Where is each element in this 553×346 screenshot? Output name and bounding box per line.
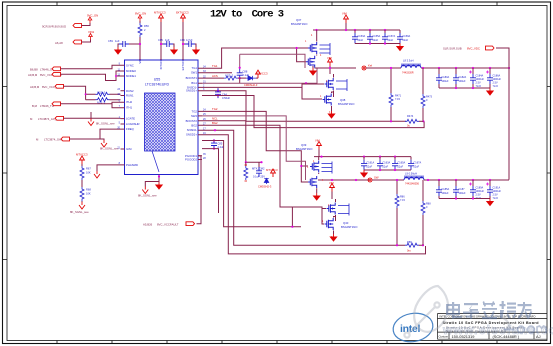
power VIN arrow stage1	[342, 12, 348, 31]
transistor Q39 fet2	[308, 176, 317, 193]
svg-text:BOOST1: BOOST1	[186, 76, 198, 80]
resistor R56	[138, 21, 149, 60]
IC pin stubs left	[121, 65, 125, 165]
svg-text:A6,A8: A6,A8	[55, 41, 63, 45]
svg-text:C88: C88	[243, 70, 248, 74]
flag 8VC_ON top	[135, 12, 146, 22]
svg-text:8VC_VCCFAULT: 8VC_VCCFAULT	[157, 223, 179, 227]
svg-text:8K_SGNL_see: 8K_SGNL_see	[138, 194, 157, 198]
wire aux row	[202, 149, 219, 213]
ground open below IC with label	[138, 182, 159, 198]
power VIM mid stage2	[329, 181, 334, 199]
svg-text:SYNC: SYNC	[126, 63, 134, 67]
svg-text:R474: R474	[407, 114, 414, 118]
IC thermal pad hatch	[145, 93, 176, 172]
svg-text:22uF: 22uF	[358, 39, 364, 42]
wire output rail stage2	[424, 179, 509, 181]
pin number digits left of IC	[117, 63, 120, 166]
svg-text:C163A: C163A	[383, 162, 391, 165]
ground rail output stage1	[439, 87, 493, 95]
svg-text:7443330R: 7443330R	[402, 72, 414, 75]
svg-text:PHASMD: PHASMD	[126, 163, 138, 167]
wire SW1 long	[202, 68, 317, 84]
svg-text:BSG09T1NO: BSG09T1NO	[341, 225, 358, 229]
svg-text:BSG09T1NO: BSG09T1NO	[296, 147, 313, 151]
power MTVCC3 top b	[176, 11, 189, 61]
svg-text:C161A: C161A	[367, 162, 375, 165]
capacitor bank input stage1	[352, 30, 365, 44]
ground stage1 a	[310, 66, 316, 75]
svg-text:LOADSHR: LOADSHR	[126, 122, 140, 126]
op-amp U55 LTC3874EUFD body	[125, 60, 199, 175]
resistor R89	[405, 240, 419, 253]
wire BG2	[202, 121, 324, 224]
svg-text:BOOST2: BOOST2	[186, 119, 198, 123]
power MTVCC3 top a	[154, 11, 166, 61]
svg-text:C85: C85	[218, 142, 223, 146]
inductor L9	[404, 172, 424, 186]
transistor Q40 fet1	[324, 199, 349, 221]
ground stage2 b	[330, 234, 336, 241]
wire VIN rail stage1	[313, 29, 400, 31]
svg-text:7.15: 7.15	[395, 98, 400, 101]
svg-text:C65: C65	[158, 38, 163, 42]
svg-text:NCL: NCL	[212, 117, 218, 121]
svg-text:C153A: C153A	[358, 35, 366, 38]
svg-text:SNSD2+: SNSD2+	[186, 133, 197, 137]
svg-text:C187: C187	[459, 188, 466, 191]
inductor L8	[401, 59, 421, 75]
svg-text:7443340056: 7443340056	[405, 183, 420, 186]
svg-text:BSG09T1NO: BSG09T1NO	[338, 102, 355, 106]
svg-text:C165A: C165A	[398, 162, 406, 165]
svg-text:EXTVCC: EXTVCC	[181, 59, 185, 70]
transistor Q39 fet1	[310, 157, 332, 174]
port 8VC_VCCFAULT	[143, 222, 195, 227]
capacitor C59	[108, 39, 141, 54]
svg-text:C155A: C155A	[373, 35, 381, 38]
svg-text:0.1uF 25V: 0.1uF 25V	[253, 175, 265, 179]
svg-text:L9 0.56uH: L9 0.56uH	[405, 172, 417, 176]
wire PHASMD	[94, 165, 121, 178]
svg-text:SLR,SUR,SUB: SLR,SUR,SUB	[443, 47, 462, 51]
transistor Q40 fet2	[323, 215, 358, 234]
watermark drop shape	[404, 286, 508, 338]
svg-text:22uF: 22uF	[414, 166, 420, 169]
svg-text:100uF: 100uF	[442, 80, 450, 83]
transistor Q37 fet2	[306, 56, 315, 68]
resistor R473	[421, 68, 433, 122]
IC right pin labels	[185, 66, 197, 161]
ground rail output stage2	[439, 197, 493, 205]
wire SNSD1-	[202, 90, 406, 122]
wire SNSD2+	[202, 135, 426, 254]
wire SW2 node	[318, 179, 369, 181]
IC bottom pin stub	[158, 175, 160, 179]
svg-text:R56: R56	[144, 24, 149, 28]
svg-text:10K: 10K	[86, 192, 91, 196]
transistor Q38 fet2	[306, 91, 355, 112]
svg-text:9CR,9VR,9U9,9UD: 9CR,9VR,9U9,9UD	[42, 25, 66, 29]
wire PGOOD to port	[197, 156, 202, 224]
ground rail input caps stage1	[355, 42, 403, 50]
svg-text:C167A: C167A	[414, 162, 422, 165]
svg-text:INTVCC: INTVCC	[159, 59, 163, 69]
wire SW to inductor stage1	[366, 67, 401, 69]
port 8VC_VCC_EN	[30, 84, 121, 104]
border zone ticks sides	[3, 87, 551, 260]
kelvin probe stage2	[368, 176, 379, 183]
svg-text:B6,B8: B6,B8	[30, 67, 38, 71]
output capacitor C180A	[436, 68, 449, 88]
svg-text:BG2: BG2	[191, 123, 197, 127]
kelvin probe stage1	[362, 64, 372, 71]
svg-text:A9,B,M: A9,B,M	[30, 85, 40, 89]
capacitor C85	[211, 139, 225, 149]
svg-text:Kel: Kel	[368, 64, 372, 68]
capacitor C159	[397, 30, 410, 44]
resistor R67	[80, 164, 91, 180]
svg-text:MTK_CM2: MTK_CM2	[252, 167, 265, 171]
svg-text:LTC3874EUFD: LTC3874EUFD	[145, 83, 170, 87]
svg-text:C180A: C180A	[442, 76, 450, 79]
output capacitor C185	[436, 180, 449, 199]
svg-text:LTC3874_GAIN: LTC3874_GAIN	[44, 138, 64, 142]
svg-text:LTM46_TH: LTM46_TH	[40, 104, 54, 108]
port LTM46_TH	[32, 102, 121, 108]
capacitor C84	[215, 88, 230, 100]
output capacitor C187	[453, 180, 466, 199]
capacitor C155	[367, 30, 380, 44]
svg-text:100uF: 100uF	[442, 192, 450, 195]
wire SW1 node	[315, 67, 356, 69]
ground solid below IC	[156, 175, 162, 189]
port 8VC_VDC	[443, 46, 509, 68]
svg-text:1uF: 1uF	[165, 38, 170, 42]
diode D37	[258, 168, 278, 189]
wire BG1	[202, 84, 306, 99]
resistor R85 boost	[244, 162, 248, 181]
svg-text:9VC_ON: 9VC_ON	[87, 14, 98, 18]
port LTC3874_AC_IN	[30, 112, 121, 126]
output capacitor C189	[470, 180, 484, 200]
svg-text:CMDSH2-3: CMDSH2-3	[258, 185, 272, 189]
output capacitor C186	[487, 68, 501, 88]
transistor Q37 label	[291, 18, 308, 26]
resistor R68	[80, 180, 91, 201]
svg-text:22uF: 22uF	[403, 39, 409, 42]
IC left pin labels	[126, 63, 140, 167]
svg-text:C157A: C157A	[388, 35, 396, 38]
svg-text:7mO: 7mO	[493, 85, 498, 88]
wire SW1 boot	[202, 54, 305, 72]
svg-text:8K_SGNL_see: 8K_SGNL_see	[70, 210, 89, 214]
svg-text:1uF: 1uF	[115, 39, 120, 43]
transistor Q37 fet1	[308, 30, 330, 56]
svg-text:0.56uF: 0.56uF	[222, 96, 230, 100]
wire output rail stage1	[421, 67, 510, 69]
fet pin digits stage1	[305, 35, 331, 114]
wire VDD vertical long	[508, 68, 510, 180]
svg-text:MODE1: MODE1	[126, 74, 136, 78]
svg-text:L8 3.3uH: L8 3.3uH	[403, 59, 414, 63]
wire SW2 boot	[202, 116, 306, 180]
IC pin stubs right	[198, 68, 202, 159]
svg-text:PGOOD2: PGOOD2	[185, 158, 197, 162]
svg-text:SNSD1+: SNSD1+	[186, 89, 197, 93]
capacitor C167	[408, 157, 421, 170]
resistor R474	[405, 114, 423, 128]
IC top pin labels	[138, 59, 185, 70]
svg-text:C59: C59	[108, 39, 113, 43]
port 8VC_VCORE000	[28, 71, 121, 81]
ground open left chain	[70, 201, 89, 214]
svg-text:0ru: 0ru	[407, 249, 411, 253]
port LTC3874_GAIN	[36, 129, 121, 150]
ground stage1 b	[328, 111, 334, 118]
svg-text:12V to Core 3: 12V to Core 3	[210, 9, 284, 21]
capacitor bank input stage2 C161	[361, 157, 374, 170]
svg-text:C66: C66	[180, 38, 185, 42]
svg-text:8K_SGNL_see: 8K_SGNL_see	[96, 122, 115, 126]
svg-text:SNSD2-: SNSD2-	[187, 128, 197, 132]
polarized cap plus marks	[469, 71, 489, 186]
svg-text:22uF: 22uF	[373, 39, 379, 42]
transistor Q39 label	[296, 143, 313, 151]
svg-text:22uF: 22uF	[367, 166, 373, 169]
wire BOOST1 with resistor and diode	[202, 74, 246, 81]
capacitor C66	[180, 38, 199, 54]
diode D36	[244, 70, 268, 87]
svg-text:SW1: SW1	[191, 71, 198, 75]
svg-text:100uF: 100uF	[459, 192, 467, 195]
wire SNSD2-	[202, 129, 424, 246]
resistor R471	[389, 67, 402, 123]
svg-text:BG2: BG2	[212, 121, 218, 125]
svg-text:8VC_VDC: 8VC_VDC	[467, 47, 480, 51]
svg-text:22uF: 22uF	[398, 166, 404, 169]
svg-text:C182A: C182A	[459, 76, 467, 79]
pin number digits right of IC	[203, 66, 206, 160]
svg-text:C159A: C159A	[403, 35, 411, 38]
svg-text:22uF: 22uF	[383, 166, 389, 169]
watermark chinese characters	[447, 301, 532, 319]
svg-text:ITH1: ITH1	[126, 106, 133, 110]
port LTM46_SYNC	[30, 65, 121, 71]
svg-text:22uF: 22uF	[388, 39, 394, 42]
svg-text:TG2: TG2	[192, 109, 198, 113]
svg-text:4.7uF: 4.7uF	[186, 38, 193, 42]
output capacitor C191	[487, 180, 501, 200]
svg-text:ITH2: ITH2	[126, 100, 133, 104]
IC top pin stubs	[140, 56, 183, 60]
logo intel	[391, 310, 435, 345]
output capacitor C182	[453, 68, 466, 88]
svg-text:A5,B26: A5,B26	[143, 223, 153, 227]
capacitor C65	[158, 38, 177, 54]
capacitor C89	[252, 162, 265, 178]
resistor R86	[395, 179, 405, 246]
power MTVCC3 left	[76, 153, 88, 165]
svg-text:MTVCC3: MTVCC3	[154, 11, 166, 15]
svg-text:TG1: TG1	[192, 66, 198, 70]
svg-text:RUN2: RUN2	[126, 89, 134, 93]
ground stage2 a	[314, 193, 320, 200]
fet pin digits stage2	[307, 161, 333, 239]
capacitor C163	[377, 157, 390, 170]
svg-text:ILIM: ILIM	[126, 147, 132, 151]
svg-text:RUN1: RUN1	[126, 94, 134, 98]
border zone ticks bottom	[57, 341, 497, 344]
svg-text:B,M: B,M	[32, 104, 38, 108]
svg-text:SW: SW	[374, 176, 379, 180]
svg-text:VIN1: VIN1	[88, 30, 95, 34]
svg-text:8K_SGNL_see: 8K_SGNL_see	[100, 147, 119, 151]
svg-text:10K: 10K	[86, 171, 91, 175]
svg-text:MODE0: MODE0	[126, 69, 136, 73]
svg-text:NQ5_2: NQ5_2	[225, 74, 234, 78]
watermark com marks	[504, 326, 546, 333]
svg-text:8XTVCC3: 8XTVCC3	[176, 11, 189, 15]
svg-text:TG2: TG2	[212, 107, 218, 111]
wire TG2	[202, 107, 308, 182]
ground rail input caps stage2	[361, 169, 411, 177]
svg-text:LGATE: LGATE	[126, 117, 135, 121]
svg-text:R67: R67	[86, 167, 91, 171]
capacitor C88	[237, 69, 250, 83]
svg-text:BSG09T1NO: BSG09T1NO	[291, 22, 308, 26]
svg-text:FREQ: FREQ	[126, 127, 135, 131]
svg-text:SW2: SW2	[191, 114, 198, 118]
svg-text:100uF: 100uF	[459, 80, 467, 83]
capacitor C165	[392, 157, 405, 170]
svg-text:7mO: 7mO	[493, 197, 498, 200]
svg-text:R68: R68	[86, 188, 91, 192]
wire SW to inductor stage2	[372, 179, 404, 181]
power VIN arrow stage2	[315, 139, 321, 157]
wire mid feedback	[202, 141, 301, 228]
wire SNSD1+	[202, 96, 424, 128]
svg-text:A9,B,M: A9,B,M	[28, 73, 38, 77]
watermark elecfans com line	[442, 323, 553, 337]
capacitor C157	[382, 30, 395, 44]
resistor R88	[421, 180, 431, 245]
border zone ticks top	[57, 2, 497, 6]
svg-text:8VC_ON: 8VC_ON	[135, 12, 146, 16]
power VIM mid stage1	[327, 56, 332, 74]
transistor Q38 fet1	[304, 74, 347, 97]
svg-text:TG1: TG1	[212, 64, 218, 68]
svg-text:U55: U55	[154, 78, 161, 82]
title block frame	[438, 314, 548, 340]
output capacitor C184	[470, 68, 484, 88]
svg-text:R89: R89	[407, 240, 412, 244]
title block bottom row	[439, 334, 541, 339]
svg-text:NQ5_0: NQ5_0	[97, 90, 106, 94]
wire VIN rail stage2	[314, 156, 411, 158]
wire TG1	[202, 47, 308, 68]
wire BOOST2 cluster	[202, 117, 263, 164]
svg-text:ACS: ACS	[212, 74, 218, 78]
port VIN1	[55, 30, 95, 45]
svg-text:7.15: 7.15	[400, 199, 405, 202]
svg-text:C185A: C185A	[442, 188, 450, 191]
port 9VC_ON	[42, 14, 98, 29]
